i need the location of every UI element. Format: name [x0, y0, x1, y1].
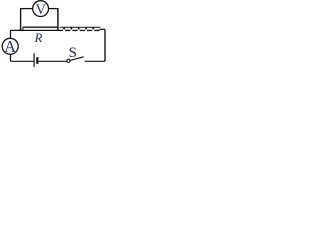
resistor coil crossing dots: [63, 27, 94, 29]
wire bottom left: [11, 60, 34, 62]
wire right vertical: [104, 29, 106, 61]
resistor coil bottom dashes: [65, 29, 99, 31]
switch S1 blade: [70, 57, 84, 61]
svg-text:A: A: [4, 37, 16, 56]
wire voltmeter left tap vertical: [20, 8, 22, 30]
wire ammeter bottom lead: [10, 54, 12, 61]
ammeter U2 circle: [2, 38, 18, 54]
wire voltmeter right tap vertical: [57, 8, 59, 31]
wire mid horizontal (left corner to coil start): [11, 29, 64, 31]
wire voltmeter right lead: [49, 8, 58, 10]
svg-text:S: S: [69, 45, 77, 61]
wire switch to right corner: [85, 60, 105, 62]
voltmeter U1 circle: [33, 1, 49, 17]
resistor R1 box top edge: [23, 26, 58, 28]
node junction left tap: [20, 29, 22, 31]
wire voltmeter left lead: [21, 8, 33, 10]
wire mid right stub: [100, 28, 106, 30]
svg-text:R: R: [34, 31, 43, 45]
battery BT1 short thick plate: [36, 57, 38, 64]
switch S1 pivot circle: [67, 59, 70, 62]
resistor coil top line: [60, 26, 101, 28]
wire battery to switch: [38, 60, 66, 62]
resistor R1 box left edge: [22, 27, 24, 30]
battery BT1 long plate: [33, 53, 35, 67]
wire left vertical to ammeter: [10, 30, 12, 38]
svg-text:V: V: [36, 2, 47, 18]
